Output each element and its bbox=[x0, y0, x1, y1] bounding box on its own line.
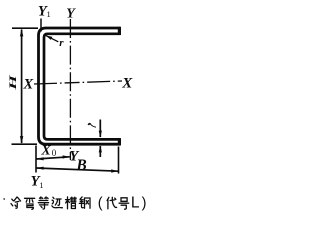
svg-text:): ) bbox=[142, 196, 147, 212]
svg-text:X: X bbox=[23, 77, 34, 93]
svg-text:H: H bbox=[8, 75, 18, 91]
svg-text:L: L bbox=[131, 195, 140, 212]
svg-text:r: r bbox=[59, 37, 64, 49]
svg-text:X: X bbox=[121, 76, 133, 92]
svg-text:1: 1 bbox=[47, 9, 51, 19]
svg-text:1: 1 bbox=[39, 180, 43, 190]
svg-text:Y: Y bbox=[66, 7, 76, 22]
svg-text:0: 0 bbox=[52, 148, 57, 158]
svg-text:(: ( bbox=[98, 196, 103, 212]
svg-text:B: B bbox=[75, 157, 86, 174]
svg-text:X: X bbox=[40, 143, 51, 158]
